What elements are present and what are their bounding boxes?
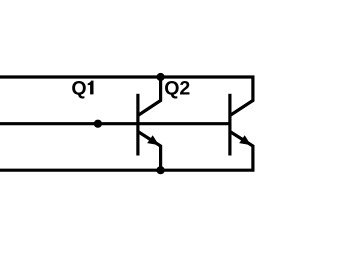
svg-text:Q: Q: [71, 77, 86, 99]
svg-text:Q2: Q2: [164, 77, 190, 99]
